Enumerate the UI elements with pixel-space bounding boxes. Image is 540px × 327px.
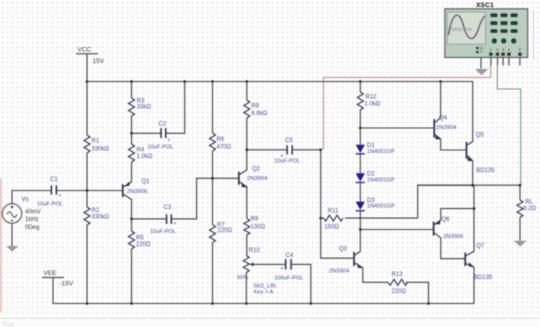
svg-text:150Ω: 150Ω <box>324 225 339 231</box>
svg-text:330kΩ: 330kΩ <box>92 215 110 221</box>
svg-text:220Ω: 220Ω <box>136 242 151 248</box>
svg-text:C1: C1 <box>50 177 58 183</box>
svg-text:R12: R12 <box>365 95 377 101</box>
svg-text:1N4001GP: 1N4001GP <box>367 177 395 183</box>
svg-text:R9: R9 <box>251 217 259 223</box>
svg-text:1.0kΩ: 1.0kΩ <box>137 154 153 160</box>
svg-text:R5: R5 <box>136 236 144 242</box>
svg-text:C2: C2 <box>159 122 167 128</box>
svg-text:Q6: Q6 <box>442 217 451 223</box>
svg-text:15V: 15V <box>93 58 105 65</box>
svg-text:2N3904: 2N3904 <box>247 176 268 182</box>
svg-text:1kHz: 1kHz <box>25 217 39 223</box>
svg-text:Q2: Q2 <box>252 167 261 173</box>
svg-text:2N3906: 2N3906 <box>127 189 147 195</box>
svg-text:Q7: Q7 <box>476 244 485 250</box>
svg-text:BD135: BD135 <box>474 275 493 281</box>
svg-text:R10: R10 <box>249 248 261 254</box>
svg-text:+: + <box>281 266 284 272</box>
svg-text:6.8kΩ: 6.8kΩ <box>251 111 267 117</box>
svg-text:P: P <box>519 48 522 52</box>
svg-text:-15V: -15V <box>60 281 74 288</box>
svg-text:VCC: VCC <box>78 47 92 54</box>
svg-text:R13: R13 <box>392 272 404 278</box>
svg-text:100uF-POL: 100uF-POL <box>274 276 303 282</box>
svg-text:2N3904: 2N3904 <box>436 125 457 131</box>
svg-text:+: + <box>174 221 177 227</box>
svg-text:470Ω: 470Ω <box>217 145 232 151</box>
svg-text:2: 2 <box>496 48 498 52</box>
svg-text:10uF-POL: 10uF-POL <box>150 229 176 235</box>
svg-text:Vs: Vs <box>22 197 29 203</box>
svg-text:Q3: Q3 <box>339 247 348 253</box>
svg-text:50%: 50% <box>237 275 248 281</box>
svg-text:+: + <box>168 138 171 144</box>
svg-text:Tektronix: Tektronix <box>449 27 472 33</box>
svg-text:40mV: 40mV <box>25 210 41 216</box>
svg-text:1N4001GP: 1N4001GP <box>367 204 395 210</box>
svg-text:Q4: Q4 <box>439 116 448 122</box>
svg-text:C4: C4 <box>286 253 294 259</box>
svg-text:10uF-POL: 10uF-POL <box>37 202 63 208</box>
svg-text:+: + <box>281 154 284 160</box>
svg-text:R6: R6 <box>217 137 225 143</box>
svg-text:RL: RL <box>525 200 533 206</box>
svg-text:1.0kΩ: 1.0kΩ <box>364 102 380 108</box>
svg-text:R1: R1 <box>92 139 100 145</box>
svg-text:0Deg: 0Deg <box>25 225 39 231</box>
svg-text:Tool: Tool <box>2 322 14 327</box>
svg-text:R8: R8 <box>251 104 259 110</box>
svg-text:220Ω: 220Ω <box>392 289 407 295</box>
svg-text:+: + <box>59 193 62 199</box>
svg-text:2N3906: 2N3906 <box>443 234 463 240</box>
svg-text:R2: R2 <box>92 208 100 214</box>
svg-text:Q1: Q1 <box>142 179 151 185</box>
svg-text:BD135: BD135 <box>476 168 495 174</box>
svg-text:330kΩ: 330kΩ <box>92 147 110 153</box>
svg-text:8.2Ω: 8.2Ω <box>523 206 536 212</box>
svg-text:C3: C3 <box>164 205 172 211</box>
svg-text:XSC1: XSC1 <box>476 2 494 9</box>
svg-text:1: 1 <box>490 48 492 52</box>
svg-text:R11: R11 <box>328 209 339 215</box>
svg-text:3: 3 <box>502 48 504 52</box>
svg-text:C5: C5 <box>285 138 293 144</box>
svg-text:4: 4 <box>508 48 510 52</box>
svg-text:10uF-POL: 10uF-POL <box>148 145 174 151</box>
svg-text:VEE: VEE <box>44 270 58 277</box>
svg-text:Q5: Q5 <box>476 133 485 139</box>
svg-text:1N4001GP: 1N4001GP <box>367 149 395 155</box>
svg-text:220Ω: 220Ω <box>218 228 233 234</box>
svg-text:10uF-POL: 10uF-POL <box>274 159 300 165</box>
svg-text:Key = A: Key = A <box>254 290 274 296</box>
svg-text:130Ω: 130Ω <box>251 225 266 231</box>
svg-text:33kΩ: 33kΩ <box>137 105 152 111</box>
svg-text:2N3904: 2N3904 <box>329 269 350 275</box>
svg-text:R4: R4 <box>137 148 145 154</box>
